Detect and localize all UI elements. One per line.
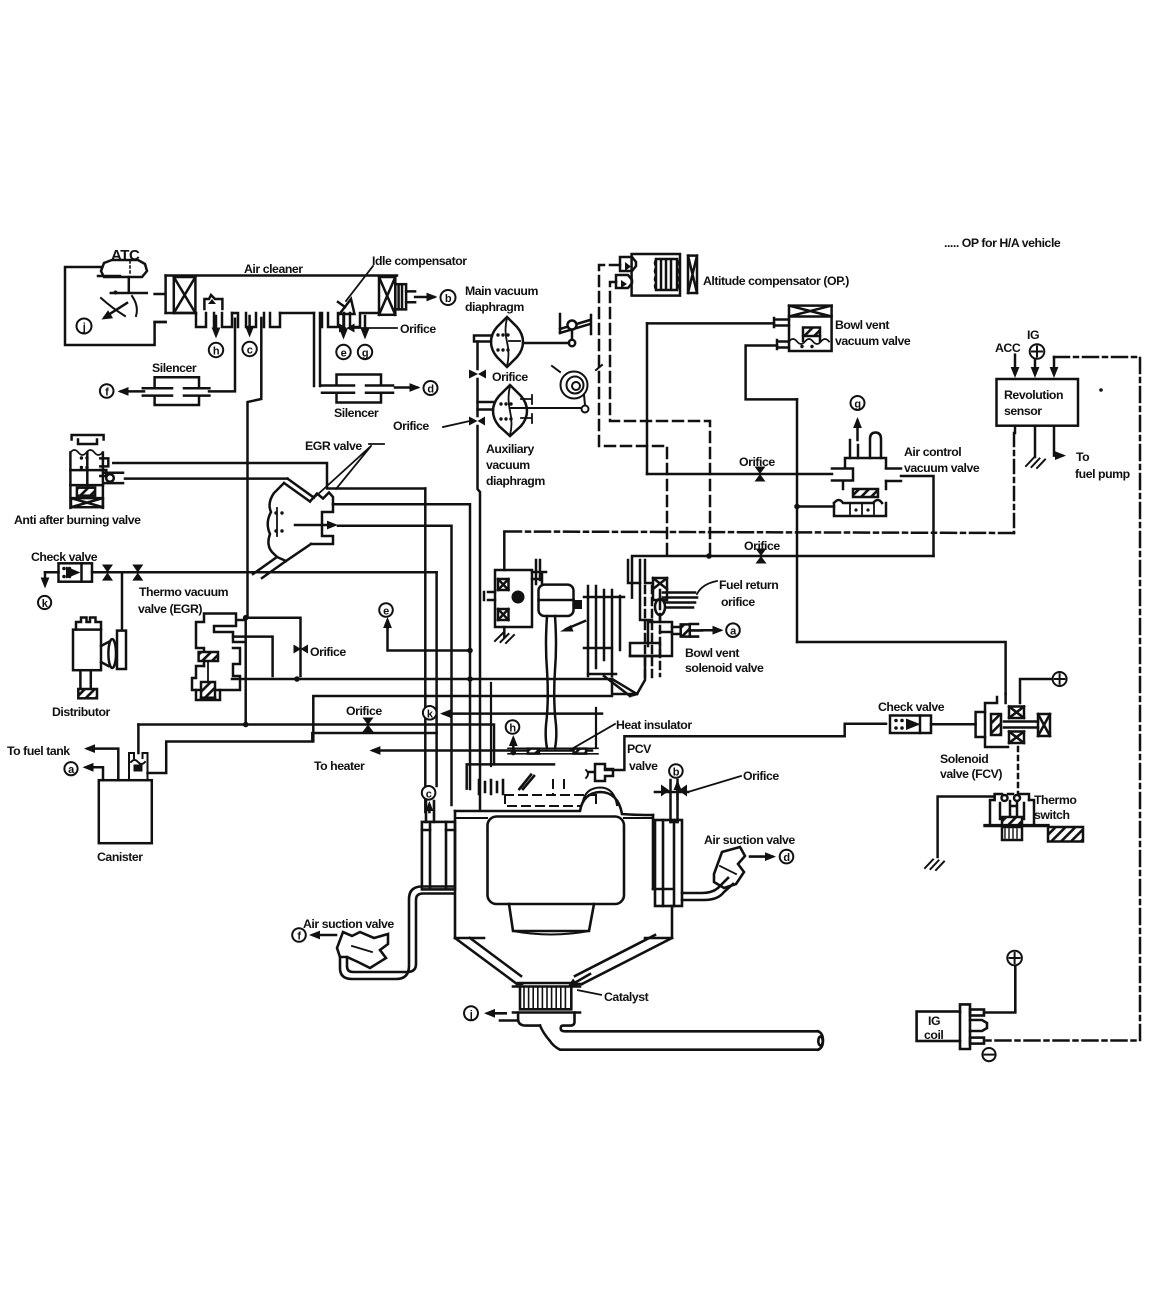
idle compensator valve small (left unit above h) xyxy=(204,295,222,309)
wire plus to solenoid xyxy=(1020,679,1051,703)
wire long vertical x647 xyxy=(646,323,649,474)
svg-text:Main vacuum: Main vacuum xyxy=(465,284,538,298)
wire to distributor advance xyxy=(121,572,124,630)
speck xyxy=(1099,388,1103,392)
node k left xyxy=(38,596,51,609)
node e xyxy=(336,345,350,359)
catalyst outlet bowl xyxy=(518,1013,574,1032)
svg-text:Orifice: Orifice xyxy=(492,370,528,384)
svg-text:Orifice: Orifice xyxy=(743,769,779,783)
wire anti-afterburn upper to EGR xyxy=(113,463,425,489)
node c xyxy=(242,342,256,356)
ground lower right xyxy=(925,860,944,871)
svg-text:h: h xyxy=(509,723,516,735)
wire EGR-B right xyxy=(333,504,470,789)
arrow to f xyxy=(121,390,144,393)
plus terminal IG coil xyxy=(1007,951,1022,966)
wire down to k xyxy=(44,572,47,583)
valve hourglass 1 xyxy=(102,565,113,581)
svg-text:IG: IG xyxy=(928,1014,940,1028)
svg-text:Orifice: Orifice xyxy=(400,322,436,336)
svg-text:Heat insulator: Heat insulator xyxy=(616,718,692,732)
thermo vacuum valve xyxy=(192,614,245,701)
wire arrow to a xyxy=(87,767,104,780)
svg-text:Bowl vent: Bowl vent xyxy=(685,646,739,660)
PCV valve xyxy=(587,764,613,781)
air suction valve left xyxy=(337,932,388,968)
svg-text:valve: valve xyxy=(629,759,658,773)
wire bowl vent valve to long vertical xyxy=(647,322,774,325)
dotted wire solenoid to thermo switch xyxy=(1017,747,1020,793)
svg-text:h: h xyxy=(213,346,220,358)
svg-text:Catalyst: Catalyst xyxy=(604,990,649,1004)
wire ACC arrow xyxy=(1014,355,1017,372)
wire main diaphragm left stub xyxy=(474,336,491,342)
node c lower xyxy=(422,786,436,800)
svg-text:To fuel tank: To fuel tank xyxy=(7,744,70,758)
catalyst xyxy=(513,974,590,1013)
carburetor bowl left edge xyxy=(491,683,596,766)
heat insulator strips xyxy=(528,749,539,754)
svg-text:Thermo vacuum: Thermo vacuum xyxy=(139,585,229,599)
svg-text:..... OP for H/A vehicle: ..... OP for H/A vehicle xyxy=(944,236,1061,250)
air suction valve right pipe xyxy=(682,878,733,900)
svg-text:Solenoid: Solenoid xyxy=(940,752,988,766)
ATC enclosure wire xyxy=(65,267,166,345)
carburetor body outline right xyxy=(612,656,645,694)
node junction thermo top xyxy=(243,615,249,621)
orifice aux lower left xyxy=(469,417,485,426)
node f lower xyxy=(292,928,306,942)
wire down to orifice xyxy=(476,342,479,370)
svg-text:Orifice: Orifice xyxy=(744,539,780,553)
svg-text:ACC: ACC xyxy=(995,341,1021,355)
wire c drop xyxy=(248,316,251,333)
engine intake pipe left (c pipe) xyxy=(425,801,434,822)
wire bowl vent valve lower loop to x797 xyxy=(746,346,797,400)
wire arrow to j xyxy=(488,1012,506,1015)
svg-text:valve (EGR): valve (EGR) xyxy=(138,602,202,616)
svg-text:Air suction valve: Air suction valve xyxy=(704,833,795,847)
revolution sensor xyxy=(997,379,1079,426)
wire sensor right pin to fuel pump arrow xyxy=(1054,426,1062,456)
anti after burning valve xyxy=(70,435,123,508)
silencer 2 xyxy=(322,375,393,403)
svg-text:vacuum valve: vacuum valve xyxy=(835,334,911,348)
wire orifice lower xyxy=(632,556,934,598)
choke coil spiral xyxy=(511,365,602,413)
node junction e-wire xyxy=(467,648,473,654)
wire long vertical x797 xyxy=(796,399,799,642)
svg-text:Air control: Air control xyxy=(904,445,961,459)
svg-text:To heater: To heater xyxy=(314,759,365,773)
wire carb base y764 xyxy=(467,764,554,788)
orifice (air cleaner, solid bowtie) xyxy=(339,324,355,333)
wire silencer 2 pipe xyxy=(314,313,320,386)
wire canister up xyxy=(137,725,140,754)
wire check valve to solenoid xyxy=(931,723,976,726)
svg-text:vacuum: vacuum xyxy=(486,458,530,472)
node d xyxy=(424,381,438,395)
idle compensator label pointer xyxy=(346,266,373,301)
wire y573 down x436 xyxy=(435,572,438,786)
label pointer heat insulator xyxy=(570,724,615,750)
svg-text:Canister: Canister xyxy=(97,850,143,864)
svg-text:Silencer: Silencer xyxy=(334,406,379,420)
svg-text:orifice: orifice xyxy=(721,595,755,609)
wire arrow to f lower xyxy=(313,934,336,937)
node k mid xyxy=(423,706,437,720)
canister xyxy=(99,780,152,843)
svg-text:e: e xyxy=(383,606,389,618)
node b xyxy=(441,290,456,305)
wire x797 across to solenoid FCV xyxy=(797,642,1006,694)
svg-text:g: g xyxy=(854,399,860,411)
svg-text:vacuum valve: vacuum valve xyxy=(904,461,980,475)
wire EGR-C arrow line down xyxy=(338,526,452,805)
small mark xyxy=(586,770,588,778)
svg-text:diaphragm: diaphragm xyxy=(486,474,545,488)
bowl vent vacuum valve xyxy=(774,306,832,351)
svg-text:Anti after burning valve: Anti after burning valve xyxy=(14,513,141,527)
node g lower xyxy=(851,396,865,410)
node a right xyxy=(726,623,740,637)
wire arrow up to e xyxy=(386,621,389,628)
canister purge valve xyxy=(129,753,148,780)
wire EGR-A down xyxy=(424,489,427,813)
wire canister to orifice long xyxy=(138,725,494,765)
throttle linkage diagonal xyxy=(519,775,534,789)
carburetor throat xyxy=(536,560,585,748)
svg-text:solenoid valve: solenoid valve xyxy=(685,661,764,675)
orifice label pointer xyxy=(443,421,470,427)
wire arrow to d lower xyxy=(750,855,772,858)
orifice lower (hourglass) xyxy=(756,549,767,564)
arrow to d xyxy=(395,386,417,389)
node g xyxy=(358,345,372,359)
wire long horizontal y679 xyxy=(232,678,612,681)
svg-text:IG: IG xyxy=(1027,328,1039,342)
EGR valve xyxy=(253,479,338,578)
carburetor float chamber xyxy=(532,572,574,616)
svg-text:EGR valve: EGR valve xyxy=(305,439,362,453)
canister wire to fuel tank arrow xyxy=(88,749,118,781)
wire air cleaner down long (to thermo vacuum valve) xyxy=(248,318,262,618)
IG coil xyxy=(917,1004,987,1049)
air control vacuum valve xyxy=(832,433,901,517)
auxiliary vacuum diaphragm xyxy=(493,385,532,436)
svg-text:ATC: ATC xyxy=(111,247,140,264)
wire x797 to air control valve bottom xyxy=(797,505,834,508)
svg-text:coil: coil xyxy=(924,1028,943,1042)
wire thermo top right xyxy=(246,618,301,676)
svg-text:PCV: PCV xyxy=(627,742,652,756)
wire box left mid xyxy=(313,696,612,741)
anti-dieseling solenoid at carb xyxy=(484,532,532,644)
svg-text:b: b xyxy=(673,767,680,779)
svg-text:Orifice: Orifice xyxy=(310,645,346,659)
wire arrow up to g xyxy=(856,421,859,440)
IG plus terminal xyxy=(1030,344,1045,359)
wire sensor left pin dash-dot down xyxy=(1014,426,1017,433)
node a left xyxy=(64,762,77,775)
node junction dashed joins orifice wire xyxy=(706,553,712,559)
idle compensator flap xyxy=(338,299,355,314)
node b lower xyxy=(669,764,683,778)
svg-text:j: j xyxy=(469,1009,473,1021)
air cleaner body xyxy=(155,276,397,328)
air suction valve left pipe xyxy=(340,887,454,980)
bowl vent solenoid valve xyxy=(630,560,702,656)
node h mid xyxy=(506,720,520,734)
wire anti-afterburn lower to EGR xyxy=(125,477,288,480)
dashed wire altitude compensator outer xyxy=(599,265,667,560)
node junction canister wire xyxy=(243,722,249,728)
engine block xyxy=(422,788,682,985)
svg-text:Orifice: Orifice xyxy=(739,455,775,469)
orifice upper (hourglass) xyxy=(755,467,766,482)
throttle lever linkage xyxy=(523,314,591,346)
check valve FCV xyxy=(890,716,931,734)
svg-text:c: c xyxy=(426,788,432,800)
svg-text:Altitude compensator (OP.): Altitude compensator (OP.) xyxy=(703,274,849,288)
orifice b glyph xyxy=(661,780,687,822)
fuel return orifice pointer xyxy=(697,581,717,594)
manifold dashed passages xyxy=(505,780,596,806)
wire aux left stubs xyxy=(478,402,495,410)
engine pipe right orifice b down xyxy=(655,792,688,822)
distributor xyxy=(73,618,126,699)
svg-text:c: c xyxy=(247,345,253,357)
plus terminal FCV xyxy=(1053,672,1067,686)
dash-dot wire right border xyxy=(986,357,1140,1041)
svg-text:Bowl vent: Bowl vent xyxy=(835,318,889,332)
wire check valve row xyxy=(45,571,437,574)
exhaust pipe xyxy=(540,1026,823,1050)
svg-text:Air suction valve: Air suction valve xyxy=(303,917,394,931)
node junction y679 left xyxy=(294,676,300,682)
wire aux diaphragm down long xyxy=(478,426,481,810)
node j xyxy=(464,1006,478,1020)
arrow to b xyxy=(415,296,434,299)
air suction valve right xyxy=(714,847,745,888)
wire air control valve loop right xyxy=(901,476,934,556)
wire orifice upper xyxy=(647,473,832,476)
wire arrow to a right xyxy=(702,629,720,632)
svg-text:Air cleaner: Air cleaner xyxy=(244,262,303,276)
wire solenoid top from x1005 xyxy=(1004,694,1007,703)
node f xyxy=(100,384,114,398)
svg-text:valve (FCV): valve (FCV) xyxy=(940,767,1002,781)
valve hourglass 2 xyxy=(132,565,143,581)
wire PCV to check valve FCV xyxy=(605,724,886,770)
dash-dot wire across middle xyxy=(504,532,1014,534)
arrow to j xyxy=(105,303,127,317)
carburetor venturi stack xyxy=(574,560,660,696)
orifice between diaphragms xyxy=(469,370,486,379)
dashed wire altitude compensator inner xyxy=(610,282,710,553)
svg-text:Orifice: Orifice xyxy=(393,419,429,433)
orifice canister line (hourglass) xyxy=(363,718,374,733)
wire canister second line xyxy=(148,733,437,773)
svg-text:d: d xyxy=(427,384,433,396)
wire g drop xyxy=(364,316,367,335)
svg-text:To: To xyxy=(1076,450,1090,464)
wire to heater arrow xyxy=(373,749,592,752)
wire air cleaner to silencer 1 xyxy=(209,319,235,392)
wire arrow up to h xyxy=(512,739,515,751)
altitude compensator xyxy=(616,254,697,296)
svg-text:sensor: sensor xyxy=(1004,404,1042,418)
wire k arrow xyxy=(444,712,602,715)
ground below revolution sensor xyxy=(1026,458,1045,469)
svg-text:diaphragm: diaphragm xyxy=(465,300,524,314)
wire thermo switch left to ground xyxy=(938,797,995,858)
solenoid valve FCV xyxy=(976,697,1050,747)
thermo switch xyxy=(985,794,1083,842)
svg-text:Auxiliary: Auxiliary xyxy=(486,442,535,456)
EGR valve label pointer xyxy=(316,444,384,496)
wire h drop xyxy=(215,316,218,334)
svg-text:Thermo: Thermo xyxy=(1034,793,1077,807)
svg-text:j: j xyxy=(82,322,86,334)
svg-text:b: b xyxy=(445,293,452,305)
svg-text:Check valve: Check valve xyxy=(31,550,98,564)
svg-text:Idle compensator: Idle compensator xyxy=(372,254,467,268)
node j xyxy=(77,319,92,334)
intake manifold bolts xyxy=(479,780,503,794)
wire orifice to auxiliary xyxy=(476,379,479,416)
svg-text:fuel pump: fuel pump xyxy=(1075,467,1130,481)
svg-text:Orifice: Orifice xyxy=(346,704,382,718)
wire IG coil plus xyxy=(984,966,1015,1013)
node h xyxy=(209,343,223,357)
ATC snorkel unit xyxy=(98,260,147,316)
air cleaner filter element right xyxy=(379,277,415,315)
main vacuum diaphragm xyxy=(491,317,523,367)
svg-text:Revolution: Revolution xyxy=(1004,388,1063,402)
wire sensor middle pin to ground xyxy=(1034,426,1037,457)
wire IG arrow xyxy=(1034,359,1037,372)
svg-text:Fuel return: Fuel return xyxy=(719,578,778,592)
svg-text:d: d xyxy=(783,852,789,864)
silencer 1 xyxy=(143,377,210,405)
wire thermo mid right xyxy=(233,637,273,676)
svg-text:Distributor: Distributor xyxy=(52,705,111,719)
minus terminal IG coil xyxy=(982,1048,995,1061)
svg-text:Silencer: Silencer xyxy=(152,361,197,375)
orifice egr mid xyxy=(294,645,309,654)
node junction x797 xyxy=(794,504,800,510)
svg-text:e: e xyxy=(341,348,347,360)
orifice pointer wire xyxy=(349,327,397,329)
wire e drop xyxy=(342,316,345,335)
node junction y679 xyxy=(467,676,473,682)
wire third arrow from dash-dot xyxy=(1053,357,1056,372)
svg-text:g: g xyxy=(362,348,368,360)
svg-text:switch: switch xyxy=(1034,808,1070,822)
orifice b pointer xyxy=(688,776,741,792)
node e mid xyxy=(379,603,393,617)
air cleaner filter element left xyxy=(174,277,196,313)
svg-text:Check valve: Check valve xyxy=(878,700,945,714)
check valve left xyxy=(59,563,93,581)
node d lower xyxy=(780,850,794,864)
